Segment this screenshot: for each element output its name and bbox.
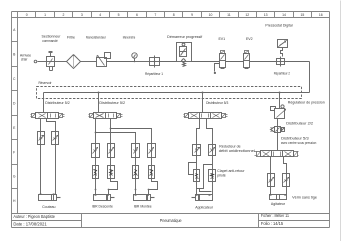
svg-text:7: 7 [154, 13, 156, 17]
svg-text:d'air: d'air [21, 58, 28, 62]
svg-text:Filtre: Filtre [67, 36, 75, 40]
svg-text:Pneumatique: Pneumatique [160, 218, 182, 223]
svg-text:Démarreur progressif: Démarreur progressif [167, 35, 202, 39]
svg-text:6: 6 [136, 13, 138, 17]
svg-text:15: 15 [301, 13, 305, 17]
svg-text:commandé: commandé [42, 39, 58, 43]
svg-text:EV1: EV1 [218, 37, 225, 41]
svg-text:8: 8 [173, 13, 175, 17]
svg-text:Manomètre: Manomètre [123, 36, 136, 40]
svg-text:Distributeur 5/3: Distributeur 5/3 [206, 101, 228, 105]
svg-text:Répartiteur 1: Répartiteur 1 [145, 72, 163, 76]
svg-text:Répartiteur 2: Répartiteur 2 [274, 71, 290, 75]
svg-text:EV2: EV2 [246, 37, 253, 41]
svg-text:Pressostat Digital: Pressostat Digital [265, 23, 292, 27]
svg-text:Applicateur: Applicateur [195, 206, 214, 210]
svg-text:avec centre sous pression: avec centre sous pression [281, 141, 316, 145]
svg-text:9: 9 [191, 13, 193, 17]
svg-text:Manodétendeur: Manodétendeur [86, 36, 107, 40]
svg-text:IBR Montée: IBR Montée [134, 205, 152, 209]
svg-text:Clapet anti-retour: Clapet anti-retour [217, 169, 245, 173]
svg-text:Folio : 14/15: Folio : 14/15 [261, 221, 284, 226]
svg-text:F: F [13, 150, 15, 154]
svg-text:Vérin sans tige: Vérin sans tige [292, 195, 317, 199]
svg-text:piloté: piloté [217, 173, 226, 177]
svg-text:16: 16 [319, 13, 323, 17]
svg-text:Agitateur: Agitateur [271, 202, 286, 206]
svg-text:0: 0 [26, 13, 28, 17]
svg-text:Fichier : Métier 11: Fichier : Métier 11 [261, 213, 290, 218]
svg-text:Couteau: Couteau [42, 205, 55, 209]
svg-text:Auteur : Pigeon Baptiste: Auteur : Pigeon Baptiste [13, 214, 55, 219]
svg-text:10: 10 [209, 13, 213, 17]
svg-text:14: 14 [282, 13, 286, 17]
svg-text:Régulateur de pression: Régulateur de pression [288, 101, 325, 105]
svg-text:Distributeur 5/2: Distributeur 5/2 [45, 101, 70, 105]
svg-text:2: 2 [63, 13, 65, 17]
svg-text:IBR Descente: IBR Descente [92, 205, 113, 209]
svg-text:4: 4 [99, 13, 101, 17]
svg-text:G: G [13, 175, 16, 179]
svg-text:débit unidirectionnel: débit unidirectionnel [219, 149, 255, 153]
svg-text:12: 12 [245, 13, 249, 17]
svg-text:Distributeur 5/2: Distributeur 5/2 [99, 101, 125, 105]
svg-text:3: 3 [81, 13, 83, 17]
svg-text:Réservoir: Réservoir [38, 81, 52, 85]
svg-text:1: 1 [44, 13, 46, 17]
svg-text:5: 5 [118, 13, 120, 17]
svg-text:Distributeur 2/2: Distributeur 2/2 [286, 121, 313, 125]
svg-text:11: 11 [227, 13, 231, 17]
svg-text:Date : 17/08/2021: Date : 17/08/2021 [13, 221, 47, 226]
svg-text:13: 13 [264, 13, 268, 17]
svg-text:Distributeur 5/3: Distributeur 5/3 [281, 137, 309, 141]
